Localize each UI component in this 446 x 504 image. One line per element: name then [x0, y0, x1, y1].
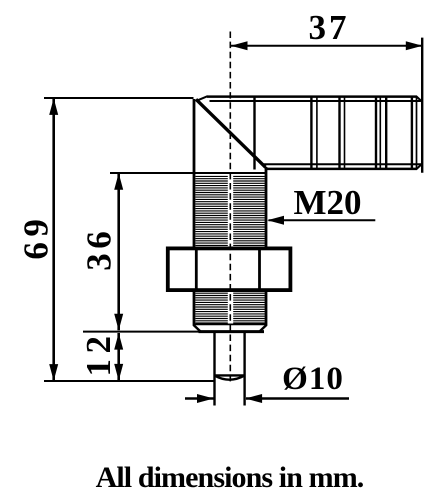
svg-text:M20: M20 — [293, 183, 361, 222]
dimension 69 — [17, 98, 215, 381]
svg-text:69: 69 — [17, 214, 56, 260]
dimension Ø10 — [185, 361, 349, 403]
knob groove lines — [255, 97, 417, 170]
extension line right of 37 / knob right edge — [421, 38, 423, 173]
body (M20 shank) edges — [194, 99, 266, 326]
hex nut — [168, 248, 291, 290]
knob (handle) outline — [197, 96, 422, 169]
thread hatching lower — [196, 293, 265, 323]
knob cone diagonal — [196, 99, 266, 167]
centerline — [229, 32, 231, 385]
shared extension line (bottom of 36 / top of 12) — [83, 331, 200, 333]
dimension 37 — [231, 8, 423, 50]
thread hatching upper — [196, 176, 265, 245]
svg-text:36: 36 — [79, 227, 118, 271]
svg-text:12: 12 — [79, 331, 118, 377]
dimension 12 — [79, 331, 123, 381]
svg-text:Ø10: Ø10 — [282, 361, 344, 397]
label M20 with leader arrow — [267, 183, 375, 225]
svg-text:37: 37 — [309, 8, 350, 47]
dimension 36 — [79, 173, 123, 330]
shank bottom chamfer — [194, 324, 267, 331]
thread start line (also 36 top extension) — [110, 172, 267, 174]
pin — [215, 332, 245, 406]
svg-text:All dimensions in mm.: All dimensions in mm. — [96, 461, 364, 494]
